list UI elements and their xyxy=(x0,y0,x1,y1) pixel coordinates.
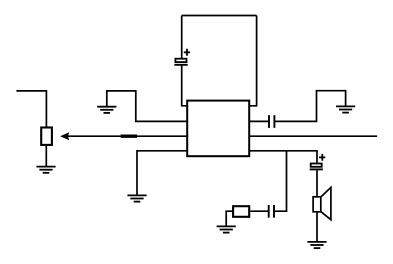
wire C2 to ground G4 xyxy=(275,91,346,122)
wire loop left (IC pin to C1) xyxy=(182,16,188,106)
IC U1 xyxy=(187,101,249,157)
wire speaker to ground xyxy=(316,212,318,242)
wire IC bottom-right pin xyxy=(249,151,317,163)
wire ground G2 to IC pin xyxy=(107,91,187,122)
ground G2 xyxy=(97,107,116,113)
wire R2 to ground G6 xyxy=(226,211,232,226)
resistor R2 xyxy=(233,206,249,217)
wire main horizontal line (right of IC) xyxy=(249,135,377,137)
capacitor C1 (polarized, top) xyxy=(174,49,190,65)
wire junction drop to RC branch xyxy=(274,151,286,211)
resistor R1 xyxy=(41,128,52,145)
ground G5 xyxy=(307,242,326,248)
wire main horizontal line (left of IC) xyxy=(68,135,187,137)
wire C3 to speaker xyxy=(316,170,318,196)
ground G3 xyxy=(127,195,146,201)
wire thick overlap segment xyxy=(121,134,137,137)
wire C4 to R2 xyxy=(250,210,268,212)
ground G6 xyxy=(217,226,236,232)
wire IC bottom-left pin to ground xyxy=(137,151,187,196)
wire top-left input xyxy=(16,91,46,127)
wire loop top xyxy=(182,15,257,17)
capacitor C3 (polarized, near speaker) xyxy=(310,154,326,170)
ground G1 xyxy=(36,167,55,173)
wire loop right xyxy=(249,16,256,106)
capacitor C2 xyxy=(269,115,274,128)
speaker LS1 xyxy=(313,187,331,219)
wire IC right pin to C2 xyxy=(249,120,268,122)
wire R1 to ground xyxy=(45,146,47,167)
arrow head (left, on main line) xyxy=(60,132,69,140)
ground G4 xyxy=(336,106,355,112)
capacitor C4 xyxy=(269,205,274,218)
